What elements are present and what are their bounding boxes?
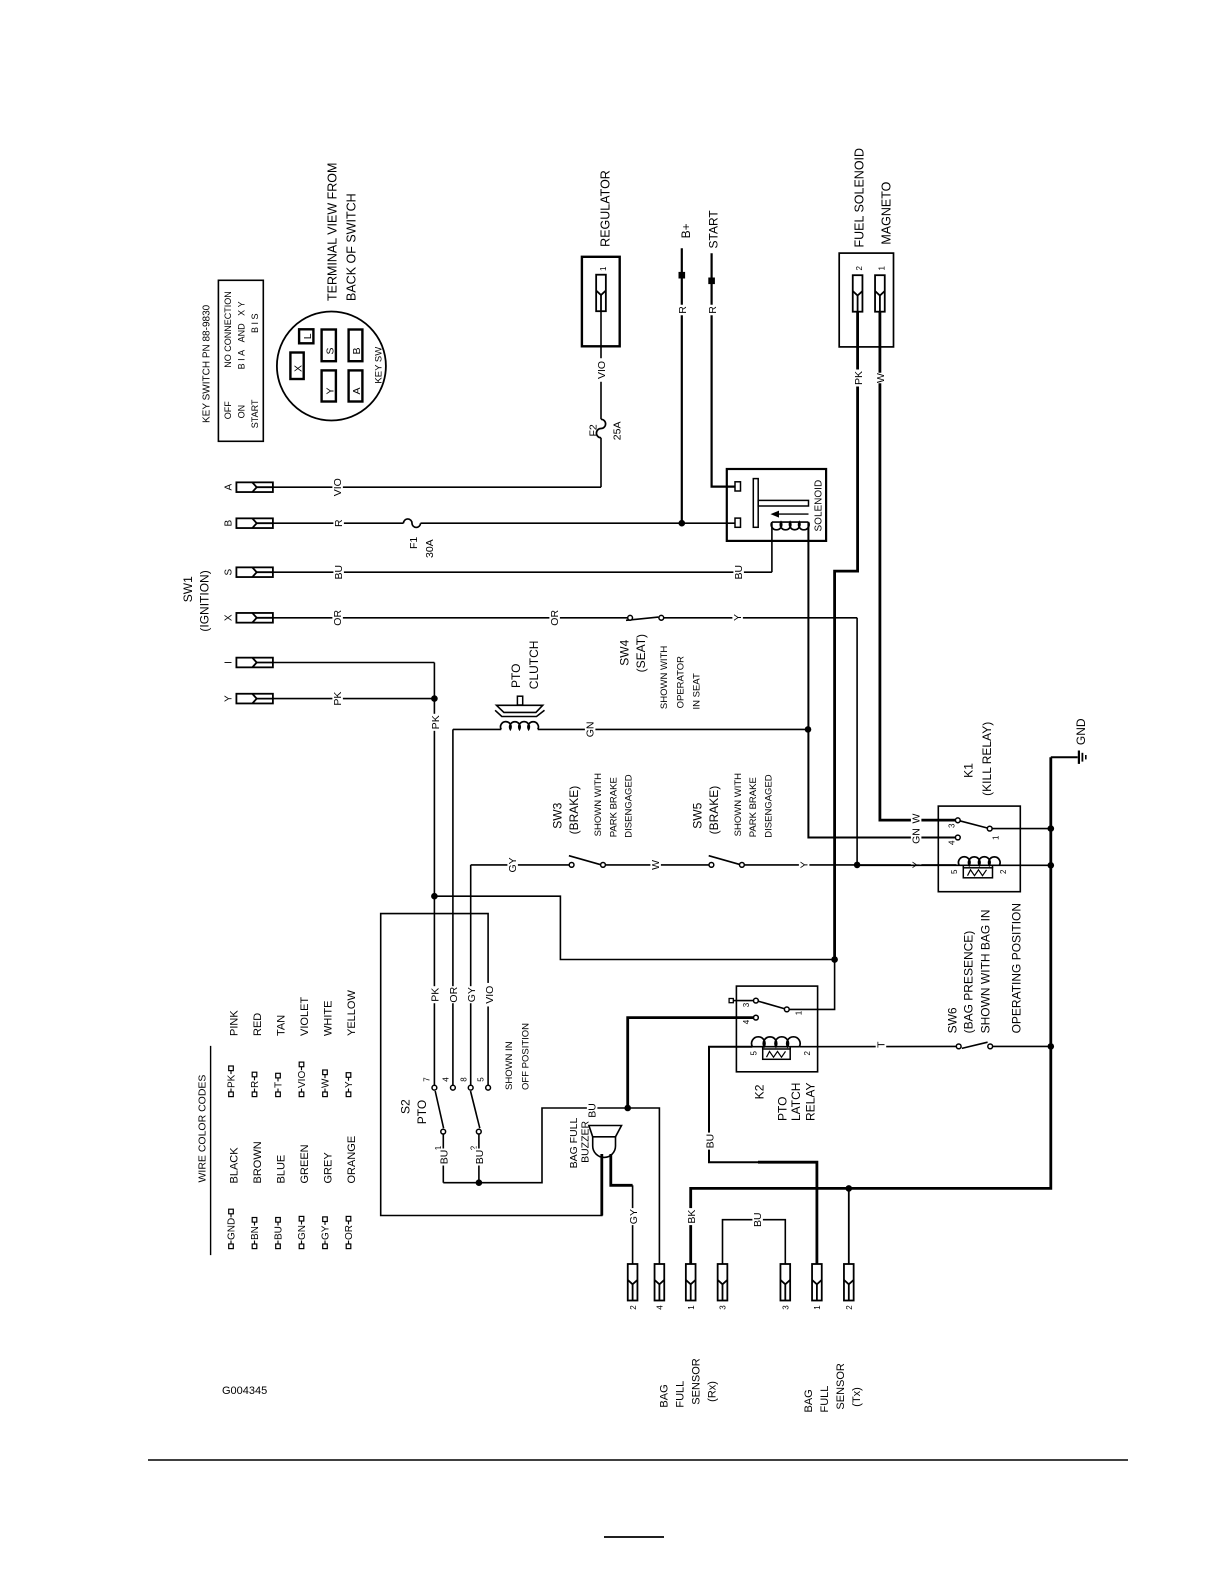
junction dot GN node (805, 726, 812, 733)
svg-text:PTO: PTO (415, 1100, 429, 1124)
svg-text:2: 2 (999, 869, 1008, 874)
svg-text:(Rx): (Rx) (707, 1381, 719, 1402)
svg-text:A: A (351, 387, 363, 394)
svg-text:S: S (224, 569, 235, 576)
switch SW3 brake switch (569, 856, 601, 865)
svg-text:BLUE: BLUE (276, 1155, 288, 1184)
svg-text:GN: GN (297, 1225, 308, 1240)
key switch terminal view circle (277, 312, 386, 421)
junction dot K2 pin1 joins PK rail (831, 956, 838, 963)
svg-text:PK: PK (853, 371, 865, 385)
svg-text:1: 1 (877, 266, 886, 271)
wire BU from S2 pole 1 (442, 1134, 444, 1183)
wire color codes table rule (210, 1046, 212, 1255)
connector SW1 pin Y (236, 694, 273, 704)
svg-text:BACK OF SWITCH: BACK OF SWITCH (345, 193, 359, 301)
wire BU bus to relay K2 and bag sensor (443, 1108, 659, 1264)
svg-text:(BAG PRESENCE): (BAG PRESENCE) (962, 931, 976, 1034)
wire label Y after SW4 (732, 612, 743, 623)
solenoid terminal from R wire (735, 518, 741, 527)
svg-text:BU: BU (752, 1212, 764, 1227)
svg-text:TAN: TAN (276, 1015, 288, 1036)
wire B+ stub (681, 248, 683, 523)
K1 contact 1 (987, 826, 992, 831)
K1 contact 4 (955, 835, 960, 840)
svg-text:5: 5 (477, 1077, 486, 1082)
svg-text:1: 1 (992, 835, 1001, 840)
key switch table box (218, 280, 263, 441)
svg-text:PARK BRAKE: PARK BRAKE (748, 777, 759, 837)
branch to bag sensor Tx pin 2 (848, 1188, 850, 1264)
key switch terminal Y (322, 370, 336, 401)
svg-text:REGULATOR: REGULATOR (599, 170, 613, 247)
fuse F1 30A (404, 519, 421, 528)
junction dot K1 coil ground (1048, 862, 1055, 869)
key switch terminal A (349, 370, 363, 401)
svg-text:GND: GND (1074, 718, 1088, 745)
svg-text:W: W (911, 813, 923, 823)
svg-text:3: 3 (719, 1305, 728, 1310)
color code row OR/ORANGE/Y/YELLOW (346, 1244, 351, 1249)
svg-text:GREY: GREY (323, 1152, 335, 1184)
buzzer BAG FULL BUZZER (589, 1126, 622, 1137)
ground symbol GND (1051, 756, 1078, 758)
svg-text:4: 4 (948, 840, 957, 845)
wire label VIO at regulator (596, 358, 607, 382)
svg-text:B: B (351, 347, 363, 354)
svg-text:LATCH: LATCH (789, 1083, 803, 1121)
svg-text:MAGNETO: MAGNETO (880, 181, 894, 244)
svg-text:(IGNITION): (IGNITION) (198, 570, 212, 631)
svg-text:PK: PK (430, 988, 442, 1002)
svg-text:BU: BU (474, 1150, 486, 1165)
svg-text:DISENGAGED: DISENGAGED (624, 774, 635, 837)
svg-text:SW6: SW6 (946, 1007, 960, 1033)
svg-text:F1: F1 (408, 537, 420, 549)
svg-text:KEY SW: KEY SW (374, 347, 385, 384)
svg-text:R: R (333, 519, 345, 527)
svg-text:25A: 25A (612, 422, 624, 441)
Rx/Tx pin3 link wire BU (723, 1220, 786, 1264)
K2 contact 1 (784, 1007, 789, 1012)
svg-text:BROWN: BROWN (252, 1141, 264, 1183)
svg-text:VIO: VIO (596, 361, 608, 379)
svg-text:SHOWN WITH BAG IN: SHOWN WITH BAG IN (979, 909, 993, 1033)
svg-text:DISENGAGED: DISENGAGED (763, 774, 774, 837)
svg-text:7: 7 (423, 1077, 432, 1082)
svg-text:WHITE: WHITE (323, 1001, 335, 1036)
svg-text:8: 8 (459, 1077, 468, 1082)
svg-text:2: 2 (803, 1050, 812, 1055)
svg-text:SW3: SW3 (551, 802, 565, 828)
key switch terminal S (322, 330, 336, 362)
K2 terminal 4 wire to BU bus (628, 1018, 754, 1108)
svg-text:Y: Y (325, 387, 337, 394)
wire BU from S2 pole 2 (478, 1134, 480, 1183)
relay K2 PTO latch relay box (736, 986, 817, 1072)
svg-text:VIO: VIO (297, 1071, 308, 1088)
svg-text:R: R (707, 306, 719, 314)
svg-text:B+: B+ (679, 223, 693, 238)
S2 contact 5 (486, 1085, 491, 1090)
K1 coil with resistor (857, 864, 1051, 866)
svg-text:Y: Y (732, 614, 744, 621)
junction dot BU poles (476, 1179, 483, 1186)
svg-text:PTO: PTO (776, 1097, 790, 1121)
svg-text:5: 5 (750, 1050, 759, 1055)
connector Tx pin 1 (812, 1264, 822, 1301)
junction dot K1 pin1 ground (1048, 825, 1055, 832)
svg-text:I: I (224, 661, 235, 664)
svg-text:A: A (224, 484, 235, 491)
svg-text:(KILL RELAY): (KILL RELAY) (980, 722, 994, 796)
key switch terminal B (349, 330, 363, 362)
svg-text:PINK: PINK (229, 1010, 241, 1036)
svg-text:SOLENOID: SOLENOID (814, 480, 825, 532)
wire OR from PTO clutch to S2 pin 4 (452, 729, 454, 1085)
svg-text:F2: F2 (588, 424, 600, 436)
svg-text:GND: GND (227, 1218, 238, 1240)
svg-text:1: 1 (795, 1010, 804, 1015)
svg-text:NO CONNECTION: NO CONNECTION (223, 291, 233, 368)
fuse F2 25A (596, 419, 605, 437)
junction dot Tx2 branch (846, 1185, 853, 1192)
svg-text:FULL: FULL (819, 1386, 831, 1413)
svg-text:1: 1 (687, 1305, 696, 1310)
svg-text:SENSOR: SENSOR (835, 1363, 847, 1410)
PTO clutch symbol (497, 705, 543, 712)
svg-text:S: S (325, 347, 337, 354)
color code row GN/GREEN/VIO/VIOLET (299, 1244, 304, 1249)
svg-text:(BRAKE): (BRAKE) (567, 786, 581, 835)
color code row BU/BLUE/T/TAN (276, 1244, 281, 1249)
svg-text:PTO: PTO (509, 664, 523, 688)
svg-text:START: START (250, 399, 260, 428)
svg-text:SHOWN WITH: SHOWN WITH (733, 773, 744, 836)
color code row GND/BLACK/PK/PINK (229, 1244, 234, 1249)
svg-text:PARK BRAKE: PARK BRAKE (608, 777, 619, 837)
svg-text:BAG FULL: BAG FULL (568, 1117, 580, 1168)
svg-text:PK: PK (430, 715, 442, 729)
svg-text:OR: OR (549, 610, 561, 626)
svg-text:K2: K2 (753, 1084, 767, 1099)
svg-text:SW1: SW1 (181, 576, 195, 602)
connector Rx pin 2 (628, 1264, 638, 1301)
svg-text:W: W (321, 1078, 332, 1088)
svg-text:BAG: BAG (659, 1384, 671, 1407)
svg-text:SW5: SW5 (691, 802, 705, 828)
svg-text:ON: ON (237, 405, 247, 419)
regulator connector pin 1 (596, 275, 606, 312)
magneto connector pin 1 (875, 275, 885, 312)
svg-text:OR: OR (332, 610, 344, 626)
svg-text:B I A AND X Y: B I A AND X Y (237, 301, 247, 369)
svg-text:WIRE COLOR CODES: WIRE COLOR CODES (197, 1075, 209, 1183)
wire from SW1-I to PK junction (273, 662, 435, 664)
svg-text:W: W (650, 860, 662, 870)
svg-text:START: START (707, 210, 721, 249)
wire OR from SW1-X through SW4 to Y junction (273, 617, 630, 619)
connector Rx pin 1 (686, 1264, 696, 1301)
K2 coil with resistor (752, 1037, 801, 1047)
svg-text:(BRAKE): (BRAKE) (707, 786, 721, 835)
svg-text:2: 2 (845, 1305, 854, 1310)
regulator box (582, 257, 620, 347)
wire VIO from buzzer loop to S2 pin 5 (381, 914, 602, 1216)
buzzer lead GY to bag sensor Rx pin 2 (611, 1154, 633, 1185)
S2 pole 2 (476, 1129, 481, 1134)
svg-text:BN: BN (250, 1226, 261, 1240)
svg-text:3: 3 (948, 823, 957, 828)
svg-text:BK: BK (686, 1210, 698, 1224)
svg-text:OFF: OFF (223, 401, 233, 419)
wire PK from fuel solenoid to K2 pin 1 (835, 312, 858, 960)
svg-text:FULL: FULL (675, 1381, 687, 1408)
S2 arm 7-1 (435, 1091, 443, 1128)
switch SW6 bag presence (962, 1042, 988, 1048)
svg-text:RED: RED (252, 1013, 264, 1036)
color code row BN/BROWN/R/RED (252, 1244, 257, 1249)
svg-text:4: 4 (742, 1019, 751, 1024)
B+ terminal square (679, 272, 686, 279)
svg-text:VIOLET: VIOLET (299, 997, 311, 1036)
key switch terminal L (299, 329, 313, 343)
svg-text:T: T (274, 1082, 285, 1088)
svg-text:Y: Y (799, 861, 811, 868)
wire PK from SW1-Y (273, 698, 435, 700)
svg-text:4: 4 (656, 1305, 665, 1310)
svg-text:OR: OR (344, 1225, 355, 1240)
wire START to solenoid (712, 253, 735, 486)
switch SW5 brake switch (709, 856, 741, 865)
svg-text:PK: PK (227, 1074, 238, 1088)
K2 pin1 wire to PK rail (789, 960, 834, 1010)
wire PK to S2 pin 7 (433, 699, 435, 1085)
junction dot PK branch to K2 (431, 893, 438, 900)
svg-text:Y: Y (224, 695, 235, 702)
connector SW1 pin I (236, 658, 273, 668)
svg-text:GY: GY (321, 1225, 332, 1240)
svg-text:VIO: VIO (484, 986, 496, 1004)
svg-text:K1: K1 (962, 763, 976, 778)
connector Tx pin 3 (780, 1264, 790, 1301)
svg-text:(Tx): (Tx) (851, 1387, 863, 1407)
wire GY from SW3 to S2 pin 8 (470, 865, 472, 1085)
svg-text:BU: BU (333, 565, 345, 580)
svg-text:KEY SWITCH PN 88-9830: KEY SWITCH PN 88-9830 (202, 304, 213, 423)
START terminal square (708, 278, 715, 285)
color code row GY/GREY/W/WHITE (323, 1244, 328, 1249)
svg-text:BUZZER: BUZZER (580, 1120, 592, 1162)
svg-text:B: B (224, 520, 235, 527)
svg-text:1: 1 (599, 266, 608, 271)
svg-text:GY: GY (507, 857, 519, 872)
svg-text:X: X (293, 365, 305, 372)
buzzer lead to S2-5 VIO loop (600, 1154, 603, 1216)
ground rail (691, 757, 1051, 1264)
svg-text:3: 3 (742, 1002, 751, 1007)
K1 pin 1 wire to ground rail (992, 828, 1051, 830)
svg-text:1: 1 (813, 1305, 822, 1310)
fuel solenoid / magneto box (839, 253, 893, 347)
svg-text:OPERATOR: OPERATOR (675, 656, 686, 709)
solenoid box (727, 469, 826, 541)
solenoid plunger T bar (753, 479, 758, 528)
K2 switch arm 3-1 (756, 1001, 787, 1010)
footer rule (148, 1459, 1128, 1461)
svg-text:SHOWN IN: SHOWN IN (504, 1041, 515, 1090)
svg-text:R: R (677, 306, 689, 314)
svg-text:X: X (224, 614, 235, 621)
K2 contact 4 (754, 1015, 759, 1020)
wire label PK at S2 (430, 986, 441, 1003)
svg-text:ORANGE: ORANGE (346, 1136, 358, 1184)
svg-text:OFF POSITION: OFF POSITION (521, 1023, 532, 1090)
junction dot I/Y PK node (431, 695, 438, 702)
K2 contact 3 (754, 998, 759, 1003)
svg-text:SW4: SW4 (618, 639, 632, 665)
connector SW1 pin S (236, 567, 273, 577)
svg-text:5: 5 (950, 869, 959, 874)
svg-text:IN SEAT: IN SEAT (692, 673, 703, 709)
key switch terminal X (290, 353, 303, 380)
svg-text:PK: PK (332, 692, 344, 706)
svg-text:GY: GY (628, 1209, 640, 1224)
svg-text:B I S: B I S (250, 313, 260, 333)
svg-text:YELLOW: YELLOW (346, 990, 358, 1036)
svg-text:VIO: VIO (332, 478, 344, 496)
svg-text:3: 3 (782, 1305, 791, 1310)
PTO clutch coil (453, 728, 501, 730)
connector SW1 pin A (236, 482, 273, 492)
svg-text:Y: Y (344, 1081, 355, 1088)
branch from PK node to PK rail near K2 (434, 896, 834, 959)
connector Tx pin 2 (844, 1264, 854, 1301)
solenoid arrow (777, 513, 809, 515)
svg-text:30A: 30A (424, 539, 436, 558)
S2 contact 7 (432, 1085, 437, 1090)
relay K1 kill relay box (938, 806, 1020, 892)
wire VIO from SW1-A to regulator (273, 486, 601, 488)
svg-text:OPERATING POSITION: OPERATING POSITION (1010, 903, 1024, 1033)
connector Rx pin 3 (718, 1264, 728, 1301)
S2 contact 4 (451, 1085, 456, 1090)
connector Rx pin 4 (655, 1264, 665, 1301)
svg-text:BLACK: BLACK (229, 1147, 241, 1184)
svg-text:BU: BU (439, 1150, 451, 1165)
connector SW1 pin B (236, 518, 273, 528)
svg-text:GY: GY (466, 987, 478, 1002)
svg-text:R: R (250, 1081, 261, 1088)
page number rule (604, 1536, 664, 1538)
solenoid terminal from start wire (735, 482, 741, 491)
junction dot SW6 to ground rail (1048, 1043, 1055, 1050)
svg-text:2: 2 (629, 1305, 638, 1310)
wire W from magneto to K1 pin 3 (880, 312, 956, 820)
svg-text:2: 2 (855, 266, 864, 271)
K2 terminal 5 wire BU to bag sensor Tx pin 1 (709, 1047, 760, 1163)
S2 arm 8-2 (471, 1091, 480, 1128)
svg-text:T: T (875, 1041, 887, 1048)
K2 terminal 3 stub (729, 999, 733, 1003)
brake line GY/W/Y with SW3 SW5 (471, 864, 572, 866)
svg-text:BU: BU (733, 565, 745, 580)
svg-text:OR: OR (448, 986, 460, 1002)
svg-text:4: 4 (442, 1077, 451, 1082)
S2 pole 1 (441, 1129, 446, 1134)
connector SW1 pin X (236, 613, 273, 623)
svg-text:BU: BU (587, 1103, 599, 1118)
switch SW4 seat switch (626, 617, 658, 620)
svg-text:SENSOR: SENSOR (691, 1358, 703, 1405)
svg-text:(SEAT): (SEAT) (634, 634, 648, 672)
svg-text:GN: GN (585, 722, 597, 738)
solenoid coil (771, 522, 809, 530)
K1 contact 3 (955, 818, 960, 823)
K2 terminal 2 wire to SW6 (799, 1045, 958, 1047)
svg-text:RELAY: RELAY (804, 1083, 818, 1121)
svg-text:SHOWN WITH: SHOWN WITH (659, 646, 670, 709)
svg-text:W: W (875, 373, 887, 383)
junction dot B+ to R wire (679, 520, 686, 527)
wire GN from clutch to solenoid/K1 node (538, 728, 808, 730)
wire BU from SW1-S to solenoid coil (273, 571, 772, 573)
fuel solenoid connector pin 2 (853, 275, 863, 312)
K1 switch arm 3-1 (958, 820, 990, 828)
svg-text:FUEL SOLENOID: FUEL SOLENOID (853, 148, 867, 248)
wire R from SW1-B to solenoid (273, 522, 404, 524)
svg-text:G004345: G004345 (222, 1385, 267, 1397)
svg-text:L: L (302, 333, 314, 339)
svg-text:S2: S2 (399, 1099, 413, 1114)
svg-text:BU: BU (274, 1226, 285, 1240)
S2 contact 8 (468, 1085, 473, 1090)
svg-text:GREEN: GREEN (299, 1144, 311, 1183)
junction dot OR joins brake line (854, 862, 861, 869)
svg-text:SHOWN WITH: SHOWN WITH (593, 773, 604, 836)
svg-text:BU: BU (704, 1134, 716, 1149)
svg-text:CLUTCH: CLUTCH (527, 641, 541, 690)
svg-text:BAG: BAG (803, 1389, 815, 1412)
junction dot BU at K2 pin 4 branch (624, 1105, 631, 1112)
svg-text:GN: GN (911, 828, 923, 844)
solenoid coil lead to GN node and K1 pin 4 (808, 522, 955, 837)
svg-text:TERMINAL VIEW FROM: TERMINAL VIEW FROM (326, 163, 340, 301)
